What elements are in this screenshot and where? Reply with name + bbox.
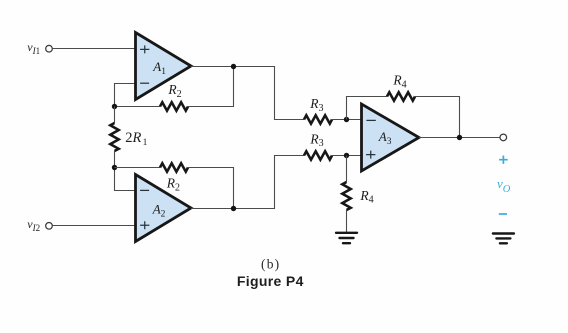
wire vI2 to A2 noninverting input [53, 225, 137, 227]
svg-text:Figure P4: Figure P4 [237, 273, 304, 289]
resistor R4 (feedback) [387, 92, 415, 100]
junction A3 noninverting node [344, 153, 349, 158]
output polarity minus [499, 213, 507, 215]
wire A1 inverting input to node B [115, 84, 138, 107]
junction A2 output node [231, 206, 236, 211]
resistor R2 (A1 feedback) [160, 102, 188, 110]
wire R4 feedback to output node [415, 97, 460, 138]
wire A3 output to vO terminal [419, 137, 500, 139]
junction output node [457, 135, 462, 140]
A1 plus pin mark [140, 45, 149, 53]
wire A3 inverting node up to R4 feedback [347, 97, 388, 120]
wire A2 output to R3 bottom [191, 156, 304, 209]
resistor R2 (A2 feedback) [160, 163, 188, 171]
wire R2 bottom to A2 output node [188, 168, 234, 209]
op-amp A1 [136, 33, 192, 100]
output polarity plus [499, 156, 508, 164]
wire node C to R2 bottom [115, 167, 161, 169]
wire R3 bottom to A3 noninverting input [332, 155, 363, 157]
ground symbol (below R4) [336, 233, 357, 243]
svg-text:(b): (b) [261, 257, 280, 272]
wire A1 output to R3 top [191, 67, 304, 120]
A2 plus pin mark [140, 221, 149, 229]
A1 minus pin mark [140, 82, 149, 84]
input terminal vI1 [46, 45, 53, 52]
junction node C [112, 165, 117, 170]
A3 minus pin mark [366, 119, 375, 121]
resistor 2R1 [110, 123, 118, 151]
op-amp A2 [136, 175, 192, 242]
wire vI1 to A1 noninverting input [53, 48, 137, 50]
wire R4 to ground symbol [346, 210, 348, 232]
resistor R3 (bottom) [304, 151, 332, 159]
wire R3 top to A3 inverting input [332, 119, 363, 121]
junction A1 output node [231, 64, 236, 69]
wire node B to 2R1 [114, 107, 116, 124]
op-amp A3 [362, 104, 420, 171]
output terminal vO [500, 134, 507, 141]
wire node B to R2 top [115, 106, 161, 108]
resistor R4 (to ground) [342, 182, 350, 210]
junction A3 inverting node [344, 117, 349, 122]
A2 minus pin mark [140, 189, 149, 191]
ground symbol (output reference) [493, 234, 514, 244]
wire A3 noninverting node to R4 ground leg [346, 156, 348, 183]
resistor R3 (top) [304, 115, 332, 123]
wire R2 top to A1 output node [188, 67, 234, 107]
input terminal vI2 [46, 223, 53, 230]
wire A2 inverting input to node C [115, 168, 138, 191]
wire 2R1 to node C [114, 151, 116, 168]
junction node B [112, 104, 117, 109]
A3 plus pin mark [366, 151, 375, 159]
